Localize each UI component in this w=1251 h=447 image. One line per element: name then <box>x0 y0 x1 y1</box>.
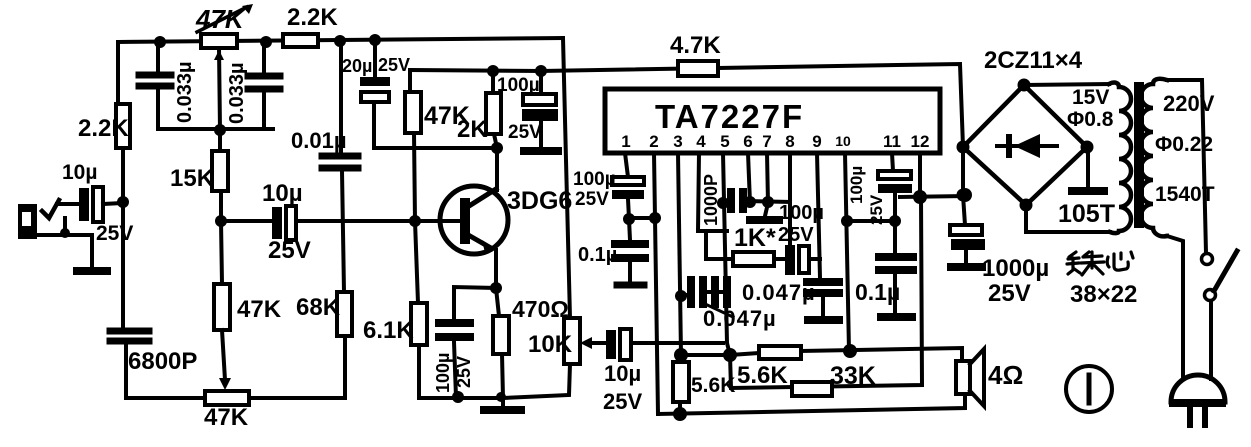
node pin6 <box>744 196 756 208</box>
node bridge bottom vertex <box>1020 199 1033 212</box>
node rail dot D <box>369 34 381 46</box>
capacitor 100u 25V emitter <box>439 323 470 337</box>
node pin5 1000P <box>717 197 729 209</box>
resistor 2K <box>493 71 497 148</box>
svg-text:47K: 47K <box>237 296 282 323</box>
svg-text:5: 5 <box>720 132 729 151</box>
wire 47K pot wiper <box>219 48 220 130</box>
node pin10 tie <box>841 215 853 227</box>
circled figure number 1 <box>1066 366 1112 412</box>
wire pin 6 <box>748 153 750 203</box>
ground 1000u <box>951 263 982 271</box>
wire collector <box>495 148 499 190</box>
transformer secondary winding <box>1109 83 1131 234</box>
svg-text:Φ0.22: Φ0.22 <box>1155 133 1213 156</box>
wire primary bottom to plug <box>1167 236 1183 379</box>
svg-text:25V: 25V <box>778 224 814 246</box>
resistor 33K <box>792 382 832 396</box>
label iron core (tie xin) hand-drawn <box>1067 252 1133 275</box>
wire B+ node to bridge <box>900 196 965 197</box>
node base divider <box>215 215 227 227</box>
wire 68K to bottom rail <box>343 336 347 398</box>
wire left vertical from rail to input node <box>118 42 123 327</box>
wire base line <box>221 219 461 223</box>
wire 33K riser <box>730 197 922 388</box>
node B+ bridge <box>958 188 972 202</box>
node feedback right <box>843 344 857 358</box>
svg-text:0.047µ: 0.047µ <box>703 306 777 331</box>
input jack tip contact <box>42 200 59 218</box>
node 470 ground <box>496 392 506 402</box>
capacitor 10u base coupling <box>272 207 282 239</box>
resistor 4.7K <box>678 61 718 76</box>
wire 0.047u callout <box>703 303 733 317</box>
node pin1 cap junction <box>623 213 635 225</box>
svg-text:25V: 25V <box>988 280 1031 307</box>
transformer core <box>1134 82 1144 228</box>
wire pin 3 <box>678 153 681 355</box>
resistor 5.6K horizontal <box>759 346 801 359</box>
input jack body <box>18 204 37 239</box>
wire jack tip to cap <box>57 202 79 206</box>
svg-text:0.033µ: 0.033µ <box>226 62 248 124</box>
capacitor 0.047u first (pins 3-5) <box>681 292 723 296</box>
wire feedback stub <box>681 353 730 357</box>
svg-text:0.1µ: 0.1µ <box>855 279 900 305</box>
ground 0.1u pin11 <box>881 313 912 321</box>
transformer primary winding <box>1141 79 1167 237</box>
resistor 5.6K vertical <box>680 355 681 414</box>
diode inside bridge <box>997 144 1057 148</box>
svg-text:Φ0.8: Φ0.8 <box>1067 108 1114 131</box>
wire tie pins 10-11 <box>847 219 895 223</box>
capacitor 10u input <box>79 188 89 221</box>
svg-text:TA7227F: TA7227F <box>655 98 804 135</box>
wire bridge top to secondary <box>1024 84 1109 85</box>
capacitor 10u 25V to IC <box>594 341 723 345</box>
resistor 68K <box>337 292 352 336</box>
svg-text:25V: 25V <box>603 389 642 414</box>
op-amp IC U1 TA7227F box <box>605 89 940 153</box>
svg-text:0.1µ: 0.1µ <box>578 244 617 266</box>
svg-text:1K*: 1K* <box>734 224 776 252</box>
capacitor 6800P <box>110 331 149 341</box>
wire pin 7 <box>765 153 768 216</box>
wire pin 10 <box>845 153 849 351</box>
wire emitter bypass branch <box>454 287 496 397</box>
svg-text:4Ω: 4Ω <box>988 360 1023 390</box>
node bridge right vertex <box>1081 141 1094 154</box>
node feedback mid <box>723 348 737 362</box>
wire pin1 node to pin2 <box>629 216 655 220</box>
wire output to speaker <box>730 348 962 361</box>
node bridge top vertex <box>1018 79 1031 92</box>
node bridge left vertex <box>957 141 970 154</box>
node B+ pin12 <box>913 190 927 204</box>
svg-text:100µ: 100µ <box>433 353 453 393</box>
wire bottom feedback rail <box>126 344 345 398</box>
svg-text:7: 7 <box>762 132 771 151</box>
svg-text:6: 6 <box>743 132 752 151</box>
node pin3 0.047u <box>675 290 687 302</box>
resistor 47K tone pot <box>201 34 237 48</box>
capacitor 100u 25V filter <box>539 71 543 147</box>
ground 0.047u second <box>808 316 839 324</box>
wire 10K wiper arrow <box>586 341 594 345</box>
wire wiper arrow to bottom 47K pot <box>222 330 225 380</box>
wire stage ground rail <box>419 364 570 407</box>
capacitor 20u 25V <box>360 77 390 86</box>
svg-text:2CZ11×4: 2CZ11×4 <box>984 47 1083 74</box>
node rail dot A <box>154 36 166 48</box>
wire primary top to switch <box>1167 80 1206 253</box>
node emitter <box>490 282 502 294</box>
svg-text:33K: 33K <box>830 362 876 390</box>
svg-text:4: 4 <box>696 132 706 151</box>
svg-text:10µ: 10µ <box>262 180 303 207</box>
svg-text:11: 11 <box>883 132 901 151</box>
capacitor 0.01u <box>322 156 358 168</box>
wire tone cap2 branch <box>262 42 266 129</box>
svg-text:10µ: 10µ <box>62 161 97 184</box>
resistor 47K bottom pot <box>205 391 249 405</box>
node rail dot B <box>260 36 272 48</box>
svg-text:0.047µ: 0.047µ <box>742 280 816 305</box>
capacitor 1000P <box>727 188 747 213</box>
wire bottom ground rail <box>658 394 965 414</box>
resistor 47K stage <box>410 70 415 221</box>
wire pin 9 <box>817 153 820 278</box>
svg-text:68K: 68K <box>296 294 341 321</box>
wire B+ first stage <box>410 70 541 71</box>
wire tone bottom rail <box>158 127 273 131</box>
node emitter bypass ground <box>452 391 464 403</box>
svg-text:15V: 15V <box>1072 86 1109 109</box>
svg-text:0.01µ: 0.01µ <box>291 128 347 153</box>
svg-text:38×22: 38×22 <box>1070 281 1137 308</box>
svg-text:20µ: 20µ <box>342 56 372 76</box>
capacitor 100u 25V pin11 <box>878 171 911 179</box>
node tone bottom <box>214 124 226 136</box>
ground jack <box>77 267 107 275</box>
resistor 47K mid <box>214 284 230 330</box>
node feedback left <box>674 348 688 362</box>
svg-text:47K: 47K <box>195 4 246 34</box>
svg-text:8: 8 <box>785 132 794 151</box>
svg-text:1000µ: 1000µ <box>982 255 1049 282</box>
wire pin 8 <box>788 153 792 246</box>
transistor 3DG6 <box>440 186 508 254</box>
wire bridge bottom to secondary <box>1026 205 1110 232</box>
svg-text:6800P: 6800P <box>128 348 197 375</box>
node pin2 tie <box>649 212 661 224</box>
capacitor 100u 25V series <box>785 245 795 275</box>
pin number labels 1-12 <box>621 132 929 151</box>
svg-text:3: 3 <box>673 132 682 151</box>
svg-text:5.6K: 5.6K <box>737 362 788 389</box>
wire volume feed vertical <box>563 38 570 318</box>
svg-text:25V: 25V <box>268 237 311 264</box>
capacitor 0.047u second <box>807 282 839 293</box>
svg-text:25V: 25V <box>454 356 474 388</box>
svg-text:100µ: 100µ <box>497 75 540 96</box>
svg-text:100µ: 100µ <box>847 166 866 204</box>
svg-text:5.6K: 5.6K <box>691 374 735 397</box>
arrow 47K tone pot adjust <box>197 7 247 32</box>
svg-text:2.2K: 2.2K <box>78 115 129 142</box>
svg-text:470Ω: 470Ω <box>512 296 569 322</box>
node jack sleeve <box>60 228 70 238</box>
svg-text:9: 9 <box>812 132 821 151</box>
wire emitter <box>494 250 498 288</box>
svg-text:25V: 25V <box>96 222 133 245</box>
svg-text:1: 1 <box>621 132 630 151</box>
capacitor 0.1u pin11 <box>879 257 913 270</box>
wire pin 11 <box>892 153 895 253</box>
wire pin 2 <box>654 153 658 414</box>
resistor 10K pot <box>564 318 580 364</box>
ground bridge right vertex <box>1086 147 1090 187</box>
node base <box>409 215 421 227</box>
svg-text:25V: 25V <box>508 122 542 143</box>
wire 4.7K feed <box>541 64 963 147</box>
wire 20u branch <box>374 40 497 148</box>
svg-text:10: 10 <box>835 133 851 149</box>
svg-text:15K: 15K <box>170 165 215 192</box>
wire 47K bias mid <box>221 221 222 284</box>
wire pin 1 <box>625 153 629 219</box>
ground 100u filter <box>524 147 558 155</box>
svg-text:220V: 220V <box>1163 91 1215 116</box>
rectifier bridge 2CZ11x4 <box>963 85 1087 205</box>
wire pin 12 <box>918 153 922 197</box>
svg-text:100µ: 100µ <box>573 169 616 190</box>
ground transistor stage <box>484 406 521 414</box>
svg-text:3DG6: 3DG6 <box>507 187 572 215</box>
node 2K top <box>487 65 499 77</box>
node rail dot C <box>334 35 346 47</box>
wire pin 5 <box>723 153 730 355</box>
capacitor 0.1u pin1 <box>629 219 630 281</box>
resistor 2.2K top <box>283 34 318 47</box>
node collector <box>491 142 503 154</box>
resistor 2.2K left <box>116 104 130 148</box>
svg-text:100µ: 100µ <box>779 202 824 224</box>
svg-text:105T: 105T <box>1058 200 1115 228</box>
svg-text:25V: 25V <box>378 55 410 75</box>
ground pins 6 7 <box>750 216 779 224</box>
resistor 15K <box>212 151 228 191</box>
wire pin 4 <box>698 153 727 231</box>
node pin11 tie <box>889 215 901 227</box>
svg-text:0.033µ: 0.033µ <box>174 61 196 123</box>
plug AC <box>1171 375 1225 402</box>
capacitor 1000u 25V <box>950 225 982 235</box>
resistor 1K* <box>706 231 785 259</box>
ground 0.1u pin1 <box>617 282 644 289</box>
speaker 4 ohm <box>956 361 970 394</box>
wire 0.01u branch <box>341 41 344 292</box>
svg-text:25V: 25V <box>867 194 886 225</box>
wire bridge output down <box>963 147 965 225</box>
node filter cap top <box>535 65 547 77</box>
svg-text:10K: 10K <box>528 331 573 358</box>
wire jack sleeve <box>37 218 92 268</box>
svg-text:2: 2 <box>649 132 658 151</box>
node pin7 <box>762 196 774 208</box>
svg-text:1540T: 1540T <box>1155 183 1215 206</box>
svg-text:47K: 47K <box>204 404 249 431</box>
wire tone cap1 branch <box>156 42 160 129</box>
capacitor 0.033u second <box>248 76 280 89</box>
resistor 470 ohm <box>496 288 503 398</box>
node input <box>117 196 129 208</box>
wire cap to input node <box>103 203 123 204</box>
svg-text:25V: 25V <box>575 189 609 210</box>
svg-text:2K: 2K <box>457 116 488 143</box>
svg-text:4.7K: 4.7K <box>670 32 721 59</box>
switch S1 <box>1202 254 1213 265</box>
capacitor 0.033u first <box>139 75 171 86</box>
wire top signal rail <box>118 38 563 42</box>
svg-text:10µ: 10µ <box>604 361 641 386</box>
svg-text:2.2K: 2.2K <box>287 4 338 31</box>
node bottom rail 5.6K <box>673 407 687 421</box>
svg-text:6.1K: 6.1K <box>363 317 414 344</box>
node 1000u top <box>957 189 970 202</box>
svg-text:12: 12 <box>911 132 930 151</box>
resistor 6.1K <box>415 221 419 398</box>
capacitor 100u 25V pin1 <box>612 177 644 185</box>
wire input node to 15K <box>220 130 221 221</box>
